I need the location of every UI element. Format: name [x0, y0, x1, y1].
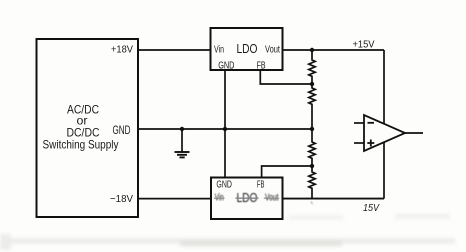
- op-amp plus symbol: [367, 142, 374, 144]
- artifact tick below divider bottom: [311, 202, 313, 205]
- svg-text:LDO: LDO: [237, 190, 258, 205]
- strikethrough artifact over U2 text: [214, 197, 225, 199]
- resistor R3: [309, 129, 315, 166]
- svg-text:FB: FB: [257, 180, 265, 191]
- LDO regulator U2 (bottom, mirrored): [211, 178, 283, 220]
- wire U1 FB pin to divider tap: [260, 70, 312, 84]
- wire GND net: supply to divider: [138, 128, 312, 130]
- svg-text:Vout: Vout: [265, 45, 280, 56]
- svg-text:15V: 15V: [363, 203, 380, 214]
- wire U1 Vout to +15V rail: [283, 49, 385, 51]
- node: lower divider tap: [310, 164, 314, 168]
- op-amp inverting input stub: [354, 122, 364, 124]
- node: GND / LDO gnd riser junction: [223, 127, 227, 131]
- wire GND riser: U1 GND pin to U2 GND pin: [224, 70, 226, 178]
- LDO regulator U1 (top): [211, 28, 283, 71]
- wire -15V rail up to op-amp V-: [383, 143, 385, 199]
- wire +15V rail down to op-amp V+: [383, 50, 385, 124]
- svg-text:Vin: Vin: [214, 45, 224, 56]
- svg-text:GND: GND: [216, 180, 232, 191]
- ground symbol: [175, 129, 190, 157]
- wire U2 Vout to -15V rail: [283, 198, 385, 200]
- node: divider mid / GND junction: [310, 127, 314, 131]
- op-amp output stub: [405, 132, 423, 134]
- resistor R2: [309, 84, 315, 129]
- svg-text:GND: GND: [218, 60, 234, 71]
- svg-text:Switching Supply: Switching Supply: [43, 138, 119, 152]
- svg-text:FB: FB: [257, 60, 266, 71]
- resistor R4: [309, 166, 315, 199]
- svg-text:+18V: +18V: [111, 44, 133, 56]
- wire U2 FB pin to lower divider tap: [262, 166, 312, 178]
- op-amp U4: [354, 115, 423, 151]
- op-amp non-inverting input stub: [354, 142, 364, 144]
- svg-text:+15V: +15V: [353, 39, 375, 51]
- wire +18V net: supply to U1 Vin: [138, 49, 211, 51]
- resistor R1: [309, 50, 315, 84]
- wire -18V net: supply to U2 Vin: [138, 198, 211, 200]
- smudge artifacts (blurred caption remnants): [0, 214, 455, 250]
- svg-text:−18V: −18V: [110, 193, 133, 205]
- supply box U3 AC/DC or DC/DC Switching Supply: [37, 39, 139, 217]
- op-amp minus symbol: [368, 122, 375, 124]
- node: upper divider tap: [310, 82, 314, 86]
- node: U1 Vout / R1 junction: [310, 48, 314, 52]
- svg-text:GND: GND: [113, 123, 131, 137]
- svg-text:LDO: LDO: [237, 41, 258, 56]
- node: ground tap: [180, 127, 184, 131]
